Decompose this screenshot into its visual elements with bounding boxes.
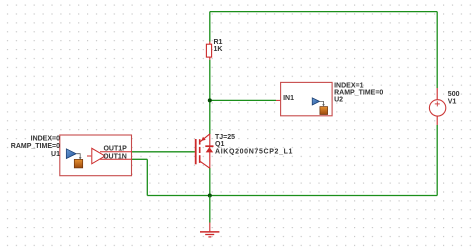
wire right vertical to V1 top xyxy=(436,12,438,88)
svg-text:IN1: IN1 xyxy=(283,95,294,102)
U1 icon orange cube xyxy=(74,159,82,168)
wire OUT1N vertical down xyxy=(146,159,148,195)
U1 icon connector elbow xyxy=(76,154,80,158)
V1 circle body xyxy=(429,100,445,116)
collector arrow xyxy=(201,137,206,141)
U1 output pin line OUT1N xyxy=(100,158,132,160)
svg-text:AIKQ200N75CP2_L1: AIKQ200N75CP2_L1 xyxy=(215,148,293,155)
V1 plus sign xyxy=(435,103,440,105)
svg-text:1K: 1K xyxy=(214,46,223,53)
collector diagonal xyxy=(200,134,209,142)
U1 icon blue triangle xyxy=(66,149,76,159)
wire top horizontal from R1 rail to V1 rail xyxy=(210,11,437,13)
wire vertical R1 bottom to Q1 collector xyxy=(209,60,211,134)
U1 box xyxy=(60,135,132,176)
ground xyxy=(200,223,219,237)
svg-text:OUT1P: OUT1P xyxy=(103,145,127,152)
wire Q1 emitter to bottom rail xyxy=(209,168,211,196)
node junction at emitter/bottom rail xyxy=(208,194,212,198)
block U1 xyxy=(60,135,132,176)
emitter diagonal xyxy=(200,162,209,169)
svg-text:R1: R1 xyxy=(214,39,223,46)
svg-text:U1: U1 xyxy=(51,151,60,158)
svg-text:TJ=25: TJ=25 xyxy=(215,134,235,141)
svg-text:OUT1N: OUT1N xyxy=(103,153,127,160)
svg-text:Q1: Q1 xyxy=(215,141,224,148)
svg-text:U2: U2 xyxy=(334,97,343,104)
resistor R1 xyxy=(206,42,211,60)
svg-text:RAMP_TIME=0: RAMP_TIME=0 xyxy=(11,143,60,150)
U2 input pin stub xyxy=(276,99,281,101)
collector-emitter vertical line xyxy=(209,134,211,168)
U1 buffer input dash xyxy=(87,155,91,157)
wire OUT1N horizontal xyxy=(132,158,148,160)
wire junction to ground xyxy=(209,196,211,223)
V1 top pin stub xyxy=(436,88,438,100)
wire V1 bottom down to corner xyxy=(436,125,438,196)
wire vertical above R1 xyxy=(209,12,211,42)
body diode cathode bar xyxy=(205,145,213,147)
block U2 xyxy=(276,82,332,115)
svg-text:500: 500 xyxy=(448,91,460,98)
U1 buffer triangle xyxy=(92,148,105,164)
wire horizontal to U2 input xyxy=(210,99,276,101)
svg-text:INDEX=1: INDEX=1 xyxy=(334,82,363,89)
U2 icon orange cube xyxy=(320,107,328,115)
gate bar xyxy=(195,139,197,164)
wire bottom horizontal xyxy=(147,195,437,197)
svg-text:RAMP_TIME=0: RAMP_TIME=0 xyxy=(334,90,383,97)
transistor Q1 (IGBT with body diode) xyxy=(196,134,214,168)
U2 icon connector elbow xyxy=(320,101,324,105)
wire OUT1P to gate xyxy=(132,151,195,153)
node junction at drain branch xyxy=(208,98,212,102)
V1 bottom pin stub xyxy=(436,116,438,125)
channel bar segments xyxy=(199,139,201,144)
svg-text:INDEX=0: INDEX=0 xyxy=(31,136,60,143)
U1 output pin line OUT1P xyxy=(100,151,132,153)
body diode triangle xyxy=(206,147,214,152)
U2 box xyxy=(281,82,333,115)
U2 icon blue triangle xyxy=(312,98,319,105)
voltage source V1 xyxy=(429,88,445,125)
svg-text:V1: V1 xyxy=(448,99,457,106)
